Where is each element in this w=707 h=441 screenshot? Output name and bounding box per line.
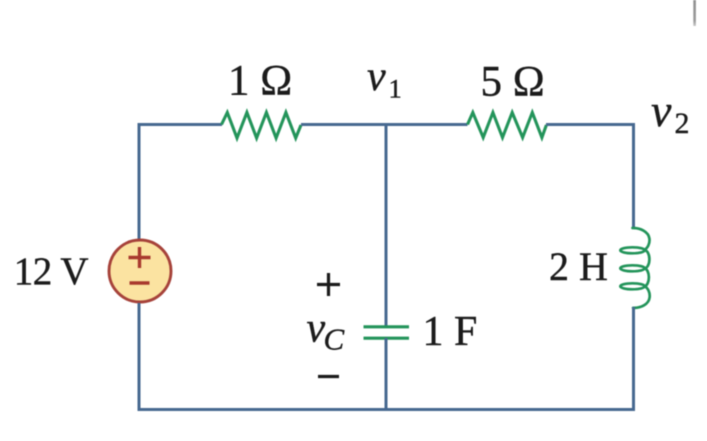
svg-text:1: 1 (389, 74, 402, 104)
resistor R1 1 ohm zigzag (222, 113, 302, 139)
wire: top-middle horizontal segment (301, 123, 468, 126)
inductor L 2H coil (620, 228, 649, 308)
scrollbar fragment top-right (693, 0, 696, 26)
wire: right vertical below inductor (632, 307, 635, 411)
capacitor C 1F bottom plate (364, 337, 410, 340)
voltage source VS 12V circle (109, 240, 171, 302)
svg-text:1 Ω: 1 Ω (228, 58, 292, 105)
capacitor polarity minus (318, 375, 339, 378)
capacitor polarity plus (317, 273, 340, 296)
svg-text:12 V: 12 V (14, 250, 89, 293)
voltage source minus sign (130, 281, 150, 284)
svg-text:v: v (651, 85, 672, 136)
svg-text:C: C (324, 322, 345, 357)
svg-text:5 Ω: 5 Ω (481, 59, 545, 106)
wire: middle vertical below capacitor (385, 338, 388, 411)
capacitor C 1F top plate (364, 325, 410, 328)
svg-text:v: v (367, 54, 386, 100)
wire: right vertical above inductor (632, 123, 635, 229)
resistor R2 5 ohm zigzag (468, 113, 547, 138)
wire: middle vertical above capacitor (385, 123, 388, 327)
wire: top-right horizontal segment (546, 123, 635, 126)
svg-text:1 F: 1 F (423, 309, 478, 355)
svg-text:2: 2 (675, 107, 690, 140)
voltage source plus sign (129, 247, 151, 268)
wire: left vertical below source (138, 303, 141, 411)
svg-text:2 H: 2 H (549, 244, 608, 289)
wire: left vertical above source (138, 123, 141, 240)
wire: bottom horizontal (138, 408, 636, 411)
wire: top-left horizontal segment (138, 123, 223, 126)
